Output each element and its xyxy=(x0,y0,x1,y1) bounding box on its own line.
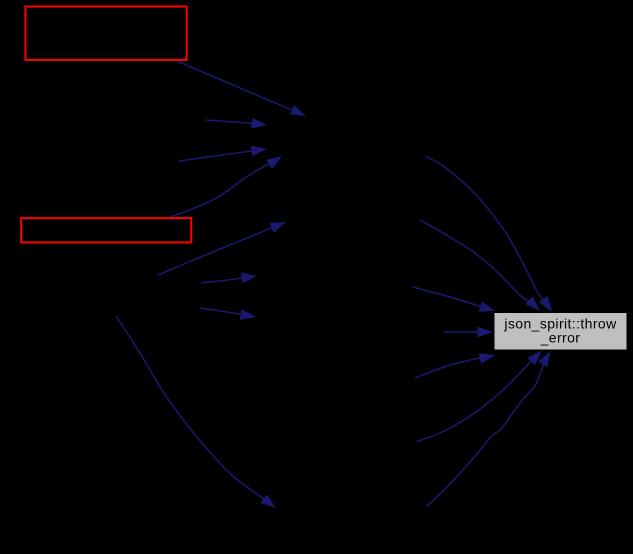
edge D: hidden node -> throw_error (to bottom-left corner) xyxy=(415,353,495,378)
edge H: hidden node -> throw_error (horizontal) xyxy=(444,327,493,338)
edge C: hidden node -> throw_error (to top-left corner) xyxy=(413,287,495,312)
node: json_spirit::throw_error (current function, grey box) xyxy=(494,313,627,351)
edge: hidden caller -> hidden middle node xyxy=(201,273,257,284)
svg-text:_error: _error xyxy=(540,329,581,345)
edge: red node 1 -> hidden middle node xyxy=(177,61,306,116)
edge: hidden caller -> hidden bottom node (long curve) xyxy=(116,316,276,508)
node: truncated caller (red outline, middle-left) xyxy=(21,218,191,242)
edge: hidden caller -> hidden middle node xyxy=(179,146,267,161)
edge E: hidden node -> throw_error (arc to bottom) xyxy=(417,351,542,442)
edge B: hidden node -> throw_error (arc to top) xyxy=(420,220,540,311)
edge F: hidden node -> throw_error (big sweep to bottom) xyxy=(426,351,551,507)
edge A: hidden node -> throw_error (big sweep to top) xyxy=(425,156,552,312)
edge: red node 2 -> hidden middle node (curved) xyxy=(170,156,282,217)
edge: hidden caller -> hidden middle node xyxy=(206,118,267,129)
edge: hidden caller -> hidden middle node xyxy=(200,308,256,320)
node: truncated caller (red outline, top-left) xyxy=(25,7,186,60)
edge: hidden caller -> hidden middle node xyxy=(158,222,286,275)
